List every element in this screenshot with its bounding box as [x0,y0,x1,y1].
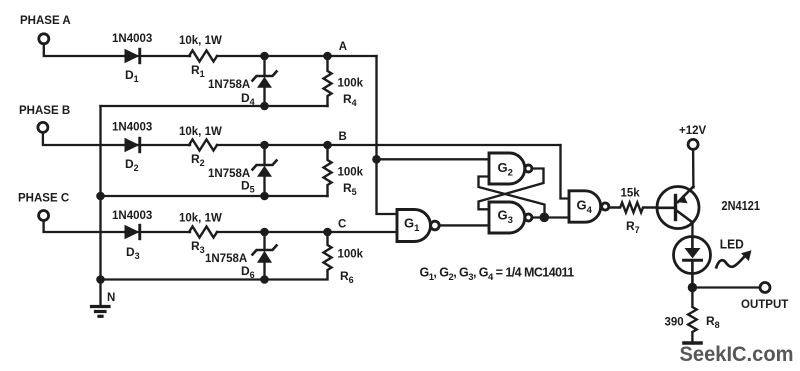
wire [43,133,190,145]
op-amp G4 (NAND gate) [569,191,609,222]
svg-text:G4: G4 [577,197,593,216]
wire B to G4 top input [561,145,570,199]
terminal phase B input [38,122,48,132]
svg-text:1N4003: 1N4003 [112,122,152,134]
node junction bus B [96,192,105,201]
wire [217,55,377,57]
diode D3 [125,224,142,240]
wire collector to LED [691,222,693,237]
svg-text:100k: 100k [338,77,364,89]
resistor R8 [688,288,697,343]
node C [323,228,332,237]
svg-text:100k: 100k [338,249,364,261]
svg-text:C: C [338,219,346,231]
wire +12V to emitter [692,150,695,188]
ground output [684,341,701,345]
node junction D6 bottom [260,275,269,284]
svg-text:R6: R6 [340,269,354,285]
svg-text:D2: D2 [125,157,139,173]
node B [323,141,332,150]
svg-text:10k, 1W: 10k, 1W [179,126,222,138]
terminal +12V [688,139,698,149]
resistor R3 [189,227,217,238]
node junction output [688,283,697,292]
svg-text:1N4003: 1N4003 [112,210,152,222]
LED arrow squiggle [716,250,751,267]
svg-text:PHASE A: PHASE A [20,15,71,27]
ground [92,307,110,317]
svg-text:G2: G2 [498,160,513,179]
node junction D5 bottom [260,192,269,201]
node junction A branch [372,155,381,164]
svg-text:N: N [107,292,115,304]
svg-text:PHASE B: PHASE B [19,105,70,117]
svg-text:LED: LED [720,236,744,251]
svg-text:10k, 1W: 10k, 1W [179,35,222,47]
wire latch cross up to G2 bottom input [479,177,545,218]
svg-text:R8: R8 [706,314,720,330]
svg-text:G1: G1 [404,216,420,235]
node junction D4 bottom [260,102,269,111]
wire phase C bottom rail [101,278,328,280]
svg-text:D5: D5 [241,179,255,195]
wire phase B bottom rail [101,195,328,197]
svg-text:SeekIC.com: SeekIC.com [680,341,794,366]
svg-text:2N4121: 2N4121 [722,198,761,213]
zener D6 [253,232,277,280]
svg-text:1N4003: 1N4003 [112,33,152,45]
diode D1 [125,48,142,64]
svg-text:G1, G2, G3, G4 = 1/4 MC14011: G1, G2, G3, G4 = 1/4 MC14011 [420,266,575,284]
wire node A branch vertical [377,56,398,214]
resistor R2 [189,140,217,151]
wire G2 output to G3 top input (latch cross) [479,169,544,210]
resistor R1 [189,51,217,62]
op-amp G3 (NAND gate) [489,202,532,233]
svg-text:A: A [339,41,347,53]
wire to output terminal [692,286,760,288]
wire to G2 top input [377,158,490,160]
svg-text:R7: R7 [626,219,640,235]
resistor R6 [324,232,332,278]
node junction latch [540,213,550,223]
node junction [260,141,269,150]
wire phase A bottom rail [101,105,328,107]
diode D2 [125,137,142,153]
wire neutral bus vertical [99,106,101,305]
svg-text:390: 390 [665,317,684,329]
svg-text:15k: 15k [621,187,641,199]
zener D4 [253,56,277,106]
wire G3 output to G4 and latch [532,216,569,218]
op-amp G1 (NAND gate) [397,210,439,242]
resistor R7 [609,203,658,213]
terminal phase A input [39,34,49,44]
wire [217,144,561,146]
svg-text:R4: R4 [343,92,357,108]
resistor R5 [324,145,332,196]
wire [44,221,190,232]
svg-text:G3: G3 [498,207,513,226]
transistor Q1 2N4121 [657,187,699,229]
wire [44,44,190,56]
svg-text:+12V: +12V [679,125,707,137]
node junction bus C [96,275,105,284]
svg-text:R5: R5 [343,181,357,197]
node junction [260,52,269,61]
wire G1 output [439,224,489,226]
svg-text:R1: R1 [191,63,205,79]
svg-text:PHASE C: PHASE C [18,193,69,205]
svg-text:100k: 100k [338,166,364,178]
svg-text:B: B [339,131,347,143]
op-amp G2 (NAND gate) [489,153,532,184]
svg-text:R3: R3 [191,239,205,255]
svg-text:D3: D3 [126,245,140,261]
svg-text:1N758A: 1N758A [208,79,250,91]
wire [217,231,397,233]
svg-text:R2: R2 [191,152,205,168]
svg-text:OUTPUT: OUTPUT [741,299,788,311]
node junction [260,228,269,237]
zener D5 [253,145,277,196]
svg-text:D4: D4 [241,91,255,107]
LED D7 [674,237,711,288]
terminal OUTPUT [760,283,770,293]
svg-text:D6: D6 [241,264,255,280]
svg-text:D1: D1 [125,68,139,84]
svg-text:10k, 1W: 10k, 1W [179,213,222,225]
resistor R4 [324,56,332,106]
node A [323,52,332,61]
terminal phase C input [39,211,49,221]
